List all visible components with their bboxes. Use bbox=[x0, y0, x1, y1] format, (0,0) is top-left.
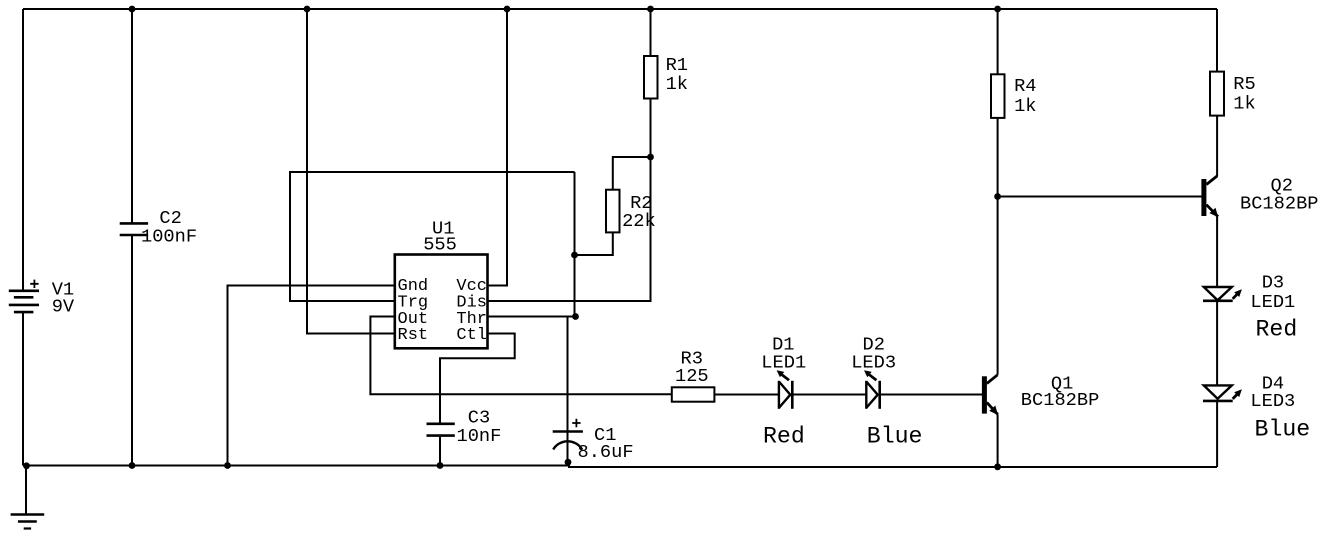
node bottom rail Q1 emitter bbox=[994, 463, 1001, 470]
resistor R1 bbox=[644, 56, 658, 99]
wire Gnd pin to bottom rail bbox=[228, 286, 395, 466]
wire Thr bbox=[488, 316, 576, 318]
ground bbox=[11, 466, 45, 529]
node top rail C2 bbox=[129, 6, 136, 13]
op-amp U1 555 box bbox=[395, 255, 488, 349]
svg-text:1k: 1k bbox=[1233, 93, 1255, 115]
svg-text:LED1: LED1 bbox=[1250, 291, 1295, 313]
wire C2 top bbox=[131, 9, 133, 223]
transistor Q1 bbox=[982, 375, 998, 415]
diode D3 LED bbox=[1203, 287, 1242, 301]
wire R1 top bbox=[650, 9, 652, 56]
resistor R5 bbox=[1210, 72, 1224, 116]
wire Q2 emitter to D3 bbox=[1216, 217, 1218, 287]
wire R1 bottom bbox=[650, 99, 652, 158]
node top rail Vcc bbox=[504, 6, 511, 13]
node bottom rail C3 bbox=[437, 462, 444, 469]
node bottom rail C2 bbox=[129, 462, 136, 469]
svg-text:Red: Red bbox=[763, 424, 805, 450]
svg-text:BC182BP: BC182BP bbox=[1021, 389, 1100, 411]
wire Rst to top rail bbox=[307, 9, 395, 334]
wire bottom ground rail bbox=[23, 466, 1217, 468]
svg-text:22k: 22k bbox=[622, 210, 656, 232]
wire R2 top bbox=[613, 157, 651, 190]
node R1 R2 Dis junction bbox=[647, 154, 654, 161]
wire D1 to D2 bbox=[792, 394, 866, 396]
svg-text:Blue: Blue bbox=[1255, 417, 1311, 443]
wire right edge top rail to R5 bbox=[1216, 9, 1218, 72]
wire D4 to bottom rail bbox=[1216, 401, 1218, 467]
svg-text:1k: 1k bbox=[1014, 95, 1036, 117]
wire Out loop to R3 bbox=[370, 317, 671, 395]
node top rail R4 bbox=[994, 6, 1001, 13]
diode D2 LED bbox=[864, 370, 880, 409]
wire C2 bottom bbox=[131, 235, 133, 466]
svg-text:BC182BP: BC182BP bbox=[1240, 193, 1319, 215]
svg-text:10nF: 10nF bbox=[457, 425, 502, 447]
wire C3 bottom bbox=[439, 436, 441, 466]
svg-text:125: 125 bbox=[675, 365, 709, 387]
wire top power rail bbox=[23, 8, 1217, 10]
wire Ctl loop to C3 bbox=[440, 334, 515, 424]
diode D1 LED bbox=[777, 370, 793, 409]
node bottom rail C1 bbox=[565, 459, 572, 466]
svg-text:Rst: Rst bbox=[398, 326, 429, 345]
wire R2 bottom bbox=[575, 232, 613, 255]
svg-text:9V: 9V bbox=[52, 296, 75, 318]
wire left edge from top rail to battery bbox=[22, 9, 24, 290]
transistor Q2 bbox=[1201, 176, 1218, 217]
svg-text:Ctl: Ctl bbox=[456, 326, 487, 345]
resistor R3 bbox=[672, 387, 715, 401]
wire R4 top bbox=[997, 9, 999, 74]
svg-text:8.6uF: 8.6uF bbox=[578, 441, 634, 463]
svg-text:LED1: LED1 bbox=[761, 351, 806, 373]
wire battery to bottom rail bbox=[22, 312, 24, 465]
svg-text:555: 555 bbox=[423, 234, 457, 256]
wire Dis to R1-R2 junction bbox=[488, 157, 651, 301]
wire Trg-Thr link bbox=[574, 172, 576, 317]
resistor R4 bbox=[991, 74, 1005, 118]
svg-text:LED3: LED3 bbox=[851, 351, 896, 373]
svg-text:1k: 1k bbox=[666, 73, 688, 95]
wire C1 top bbox=[567, 317, 569, 463]
wire R3 to D1 bbox=[714, 394, 779, 396]
wire Q2 base bbox=[998, 196, 1202, 198]
capacitor C3 bbox=[427, 424, 455, 436]
wire R5 to Q2 collector bbox=[1216, 116, 1218, 177]
svg-text:R4: R4 bbox=[1014, 75, 1036, 97]
diode D4 LED bbox=[1203, 385, 1242, 401]
node top rail R1 bbox=[647, 6, 654, 13]
node Thr junction bbox=[572, 313, 579, 320]
node bottom rail Gnd wire bbox=[224, 462, 231, 469]
svg-text:100nF: 100nF bbox=[141, 226, 197, 248]
node Q2 base junction bbox=[994, 193, 1001, 200]
svg-text:Red: Red bbox=[1256, 317, 1298, 343]
node bottom rail ground bbox=[23, 462, 30, 469]
capacitor C1 bbox=[553, 419, 583, 450]
wire Vcc to top rail bbox=[488, 9, 508, 286]
svg-text:LED3: LED3 bbox=[1250, 390, 1295, 412]
battery V1 bbox=[9, 280, 39, 313]
wire D2 to Q1 base bbox=[880, 394, 982, 396]
resistor R2 bbox=[606, 190, 620, 233]
node R2 bottom junction bbox=[571, 252, 578, 259]
svg-text:Blue: Blue bbox=[867, 424, 923, 450]
node top rail Rst bbox=[304, 6, 311, 13]
capacitor C2 bbox=[120, 223, 148, 235]
wire Q1 collector to R4 bbox=[997, 118, 999, 375]
wire D3 to D4 bbox=[1216, 301, 1218, 386]
wire Q1 emitter to bottom rail bbox=[997, 414, 999, 467]
wire Trg loop bbox=[290, 172, 575, 301]
